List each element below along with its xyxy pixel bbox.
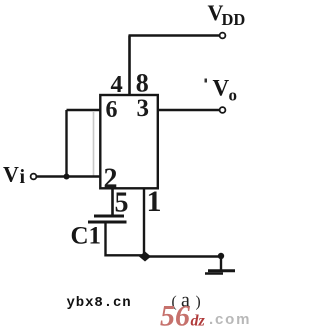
svg-text:6: 6 bbox=[106, 97, 118, 123]
wire bottom to ground bbox=[144, 255, 221, 257]
wire Vo bbox=[158, 109, 220, 112]
svg-text:): ) bbox=[196, 294, 201, 311]
IC U1 body bbox=[100, 95, 158, 188]
Vi terminal bbox=[31, 174, 37, 180]
wire VDD vertical bbox=[128, 36, 131, 96]
svg-text:8: 8 bbox=[136, 69, 149, 98]
ground bar 2 bbox=[205, 272, 223, 275]
wire below C1 bbox=[106, 223, 146, 255]
svg-text:o: o bbox=[229, 86, 238, 105]
svg-text:V: V bbox=[3, 162, 19, 187]
VDD terminal bbox=[220, 33, 226, 39]
svg-text:dz: dz bbox=[191, 313, 206, 329]
junction node Vi/feedback bbox=[64, 174, 70, 180]
svg-text:4: 4 bbox=[111, 71, 123, 98]
svg-text:.com: .com bbox=[209, 311, 250, 328]
noise mark near Vo bbox=[205, 79, 208, 83]
wire pin5 bbox=[111, 189, 114, 216]
wire VDD horizontal bbox=[129, 34, 221, 37]
svg-text:ybx8.cn: ybx8.cn bbox=[67, 295, 132, 311]
junction node bottom bbox=[139, 252, 151, 262]
scan ghost line bbox=[93, 112, 95, 176]
svg-text:DD: DD bbox=[222, 10, 246, 29]
ground lead bbox=[220, 256, 222, 270]
wire pin1 bbox=[143, 189, 145, 257]
ground bar 1 bbox=[208, 269, 235, 272]
svg-text:5: 5 bbox=[115, 188, 129, 219]
svg-text:V: V bbox=[213, 76, 230, 101]
Vo terminal bbox=[220, 107, 226, 113]
wire Vi bbox=[37, 175, 102, 177]
ground connection dot bbox=[218, 253, 224, 259]
svg-text:C1: C1 bbox=[71, 223, 102, 250]
svg-text:56: 56 bbox=[160, 300, 190, 329]
wire feedback vertical bbox=[65, 110, 67, 177]
svg-text:1: 1 bbox=[147, 185, 162, 218]
capacitor C1 top plate bbox=[94, 215, 124, 218]
svg-text:i: i bbox=[20, 166, 26, 188]
svg-text:3: 3 bbox=[137, 95, 150, 122]
wire pin6 stub bbox=[67, 109, 102, 111]
capacitor C1 bottom plate bbox=[88, 221, 127, 224]
